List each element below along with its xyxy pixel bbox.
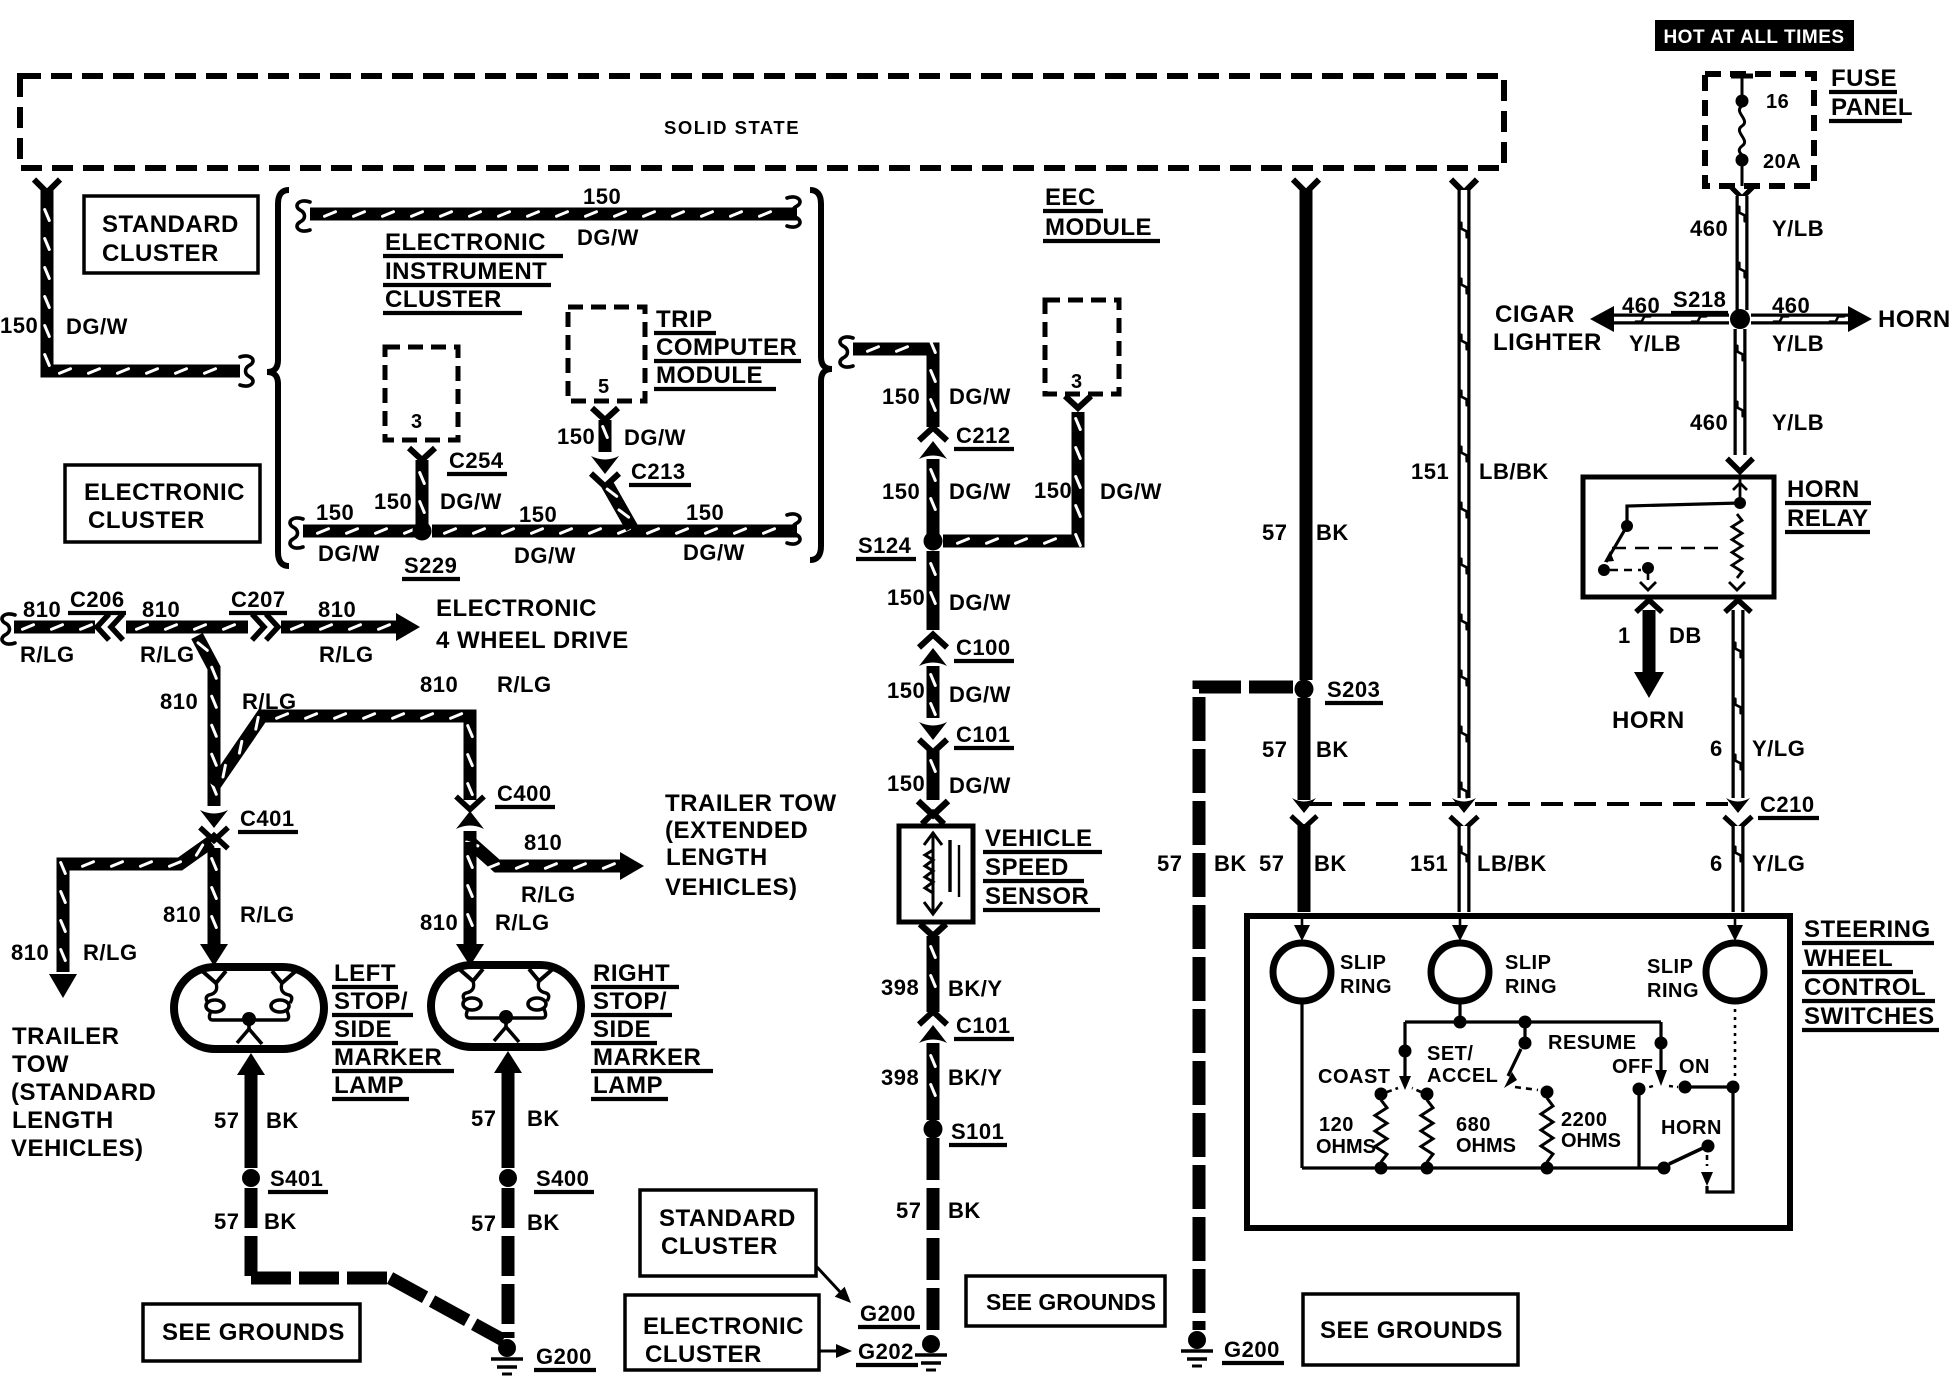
connector chevron at horn relay input — [1727, 459, 1753, 472]
label C254 — [447, 448, 507, 474]
box ELECTRONIC CLUSTER (bottom) — [625, 1295, 819, 1370]
svg-text:398: 398 — [881, 1065, 919, 1090]
ground G200 (right) — [1181, 1331, 1213, 1366]
svg-text:3: 3 — [411, 411, 423, 433]
svg-text:151: 151 — [1411, 459, 1449, 484]
label 150 (S124-EEC) — [1034, 478, 1072, 503]
junction at slip ring 2 bus — [1454, 1016, 1467, 1029]
label 150 (bus left) — [316, 500, 354, 525]
label 150 (top cluster wire) — [583, 184, 621, 209]
svg-text:C400: C400 — [497, 781, 552, 806]
svg-text:RING: RING — [1340, 976, 1392, 998]
label S124 — [856, 533, 916, 559]
wire 150 DG/W top cluster feed — [297, 197, 800, 231]
label Y/LG (lower) — [1752, 851, 1805, 876]
connector chevron at solid state output pin (left) — [34, 180, 60, 193]
connector chevron below fuse panel — [1730, 186, 1754, 198]
box ELECTRONIC CLUSTER (left) — [65, 465, 260, 542]
svg-text:S203: S203 — [1327, 677, 1380, 702]
svg-text:HORN: HORN — [1612, 707, 1685, 734]
wire 150 DG/W cluster bus right segment — [432, 514, 800, 544]
svg-text:CLUSTER: CLUSTER — [645, 1341, 762, 1368]
svg-text:398: 398 — [881, 975, 919, 1000]
svg-text:150: 150 — [519, 502, 557, 527]
splice S203 — [1295, 680, 1314, 699]
svg-text:ELECTRONIC: ELECTRONIC — [436, 595, 597, 622]
connector C101 (upper) — [919, 722, 947, 753]
label C206 — [68, 587, 126, 613]
svg-text:C206: C206 — [70, 587, 125, 612]
label DB (DB wire) — [1669, 623, 1702, 648]
label TRIP COMPUTER MODULE — [654, 306, 801, 389]
wire 150 DG/W trip computer to C213 — [603, 420, 608, 452]
svg-text:RELAY: RELAY — [1787, 505, 1869, 532]
svg-text:R/LG: R/LG — [497, 672, 552, 697]
wire 810 R/LG C206 to C207 — [126, 625, 248, 630]
wire 57 BK left lamp to S401 — [237, 1053, 265, 1168]
label 150 (C101-VSS) — [887, 771, 925, 796]
label HOT AT ALL TIMES (black banner) — [1655, 20, 1854, 51]
svg-text:S218: S218 — [1673, 287, 1726, 312]
label ON — [1679, 1056, 1710, 1078]
slip ring 3 — [1706, 943, 1764, 1001]
svg-text:20A: 20A — [1763, 151, 1801, 173]
svg-text:S400: S400 — [536, 1166, 589, 1191]
svg-text:(STANDARD: (STANDARD — [11, 1079, 156, 1106]
label 1 (DB wire) — [1618, 623, 1631, 648]
label G200 (right) — [1222, 1337, 1284, 1363]
svg-text:DB: DB — [1669, 623, 1702, 648]
wire 398 BK/Y C101 to S101 — [931, 1043, 936, 1120]
svg-text:LENGTH: LENGTH — [12, 1107, 114, 1134]
label HORN (load) — [1612, 707, 1685, 734]
svg-text:Y/LB: Y/LB — [1772, 216, 1824, 241]
wire 150 DG/W C101 to speed sensor — [931, 750, 936, 800]
label 460 (horn) — [1772, 293, 1810, 318]
horn switch — [1658, 1092, 1734, 1192]
arrow into slip ring 2 — [1452, 916, 1468, 941]
svg-text:DG/W: DG/W — [683, 540, 745, 565]
svg-text:LAMP: LAMP — [334, 1072, 404, 1099]
svg-text:OHMS: OHMS — [1316, 1136, 1376, 1158]
label S401 — [268, 1166, 328, 1192]
connector C400 — [456, 797, 484, 830]
wire slip ring 2 to switch bus — [1458, 1001, 1461, 1022]
connector C101 (lower) — [919, 1012, 947, 1044]
coast contact and 120 ohms resistor — [1375, 1088, 1399, 1169]
svg-text:6: 6 — [1710, 851, 1723, 876]
fuse 20A element — [1731, 74, 1753, 186]
svg-text:LB/BK: LB/BK — [1477, 851, 1547, 876]
svg-text:DG/W: DG/W — [949, 773, 1011, 798]
label TRAILER TOW (EXTENDED LENGTH VEHICLES) — [665, 790, 837, 901]
label 150 (C100-C101) — [887, 678, 925, 703]
svg-text:CLUSTER: CLUSTER — [661, 1233, 778, 1260]
right brace of instrument cluster group — [810, 190, 832, 560]
svg-text:SLIP: SLIP — [1647, 956, 1693, 978]
svg-text:VEHICLES): VEHICLES) — [11, 1135, 144, 1162]
wire 398 BK/Y sensor to C101 — [931, 936, 936, 1012]
svg-text:LAMP: LAMP — [593, 1072, 663, 1099]
svg-text:DG/W: DG/W — [949, 682, 1011, 707]
label EEC MODULE — [1043, 184, 1160, 241]
wire 1 DB horn relay to horn — [1634, 610, 1664, 698]
label DG/W (bus mid) — [514, 543, 576, 568]
set/accel switch — [1399, 1022, 1412, 1090]
svg-text:HORN: HORN — [1878, 306, 1950, 333]
svg-text:SEE GROUNDS: SEE GROUNDS — [162, 1319, 345, 1346]
connector chevron below solid state (57 BK) — [1293, 180, 1319, 193]
wire 150 DG/W C100 to C101 — [931, 666, 936, 718]
label DG/W (left wire) — [66, 314, 128, 339]
label ELECTRONIC 4 WHEEL DRIVE — [436, 595, 629, 654]
svg-text:BK: BK — [948, 1198, 981, 1223]
wire 57 BK S400 to ground (dashed) — [502, 1188, 515, 1338]
label VEHICLE SPEED SENSOR — [983, 825, 1102, 910]
svg-text:BK/Y: BK/Y — [948, 1065, 1003, 1090]
svg-text:G200: G200 — [860, 1301, 916, 1326]
label 398 (lower) — [881, 1065, 919, 1090]
svg-text:G202: G202 — [858, 1339, 914, 1364]
svg-text:2200: 2200 — [1561, 1109, 1608, 1131]
label S400 — [534, 1166, 594, 1192]
svg-text:STANDARD: STANDARD — [102, 211, 239, 238]
label TRAILER TOW (STANDARD LENGTH VEHICLES) — [11, 1023, 156, 1162]
label BK (S203-C210) — [1316, 737, 1349, 762]
svg-text:ELECTRONIC: ELECTRONIC — [84, 479, 245, 506]
svg-text:810: 810 — [163, 902, 201, 927]
label 150 (C212-S124) — [882, 479, 920, 504]
label C213 — [629, 459, 691, 485]
svg-text:LENGTH: LENGTH — [666, 844, 768, 871]
svg-text:LB/BK: LB/BK — [1479, 459, 1549, 484]
svg-text:MODULE: MODULE — [1045, 214, 1152, 241]
svg-text:BK: BK — [1316, 520, 1349, 545]
label BK (right lamp) — [527, 1106, 560, 1131]
label 150 (bus mid) — [519, 502, 557, 527]
box SEE GROUNDS (right) — [1303, 1294, 1518, 1365]
wire 150 DG/W cluster bus left segment — [290, 518, 422, 548]
label BK (S400 ground) — [527, 1210, 560, 1235]
svg-text:WHEEL: WHEEL — [1804, 945, 1893, 972]
label 151 (upper) — [1411, 459, 1449, 484]
svg-text:FUSE: FUSE — [1831, 65, 1897, 92]
svg-text:C212: C212 — [956, 423, 1011, 448]
svg-text:SIDE: SIDE — [593, 1016, 651, 1043]
svg-text:810: 810 — [420, 910, 458, 935]
svg-text:810: 810 — [420, 672, 458, 697]
svg-text:S401: S401 — [270, 1166, 323, 1191]
svg-text:150: 150 — [882, 479, 920, 504]
label DG/W (C212-S124) — [949, 479, 1011, 504]
svg-text:Y/LB: Y/LB — [1629, 331, 1681, 356]
svg-text:VEHICLE: VEHICLE — [985, 825, 1093, 852]
wire 810 R/LG C401 down to left lamp — [200, 848, 228, 966]
box SEE GROUNDS (center) — [966, 1276, 1165, 1326]
svg-text:BK: BK — [1214, 851, 1247, 876]
svg-text:S101: S101 — [951, 1119, 1004, 1144]
label 57 (center ground wire) — [896, 1198, 921, 1223]
svg-text:SLIP: SLIP — [1340, 952, 1386, 974]
svg-text:4 WHEEL DRIVE: 4 WHEEL DRIVE — [436, 627, 629, 654]
svg-text:DG/W: DG/W — [1100, 479, 1162, 504]
label S203 — [1325, 677, 1383, 703]
svg-text:C401: C401 — [240, 806, 295, 831]
svg-text:PANEL: PANEL — [1831, 94, 1913, 121]
svg-text:C101: C101 — [956, 722, 1011, 747]
svg-text:SWITCHES: SWITCHES — [1804, 1003, 1935, 1030]
label Y/LG (upper) — [1752, 736, 1805, 761]
svg-text:OHMS: OHMS — [1561, 1130, 1621, 1152]
svg-text:(EXTENDED: (EXTENDED — [665, 817, 808, 844]
wire 460 Y/LB S218 to cigar lighter — [1590, 306, 1729, 332]
label DG/W (C100-C101) — [949, 682, 1011, 707]
svg-text:BK: BK — [1314, 851, 1347, 876]
svg-text:16: 16 — [1766, 91, 1789, 113]
label 460 (cigar) — [1622, 293, 1660, 318]
label BK (C210-box) — [1314, 851, 1347, 876]
slip ring 2 — [1431, 943, 1489, 1001]
svg-text:57: 57 — [214, 1209, 239, 1234]
horn relay box — [1583, 477, 1774, 597]
label BK (center ground wire) — [948, 1198, 981, 1223]
label Y/LB (horn) — [1772, 331, 1824, 356]
label 6 (upper) — [1710, 736, 1723, 761]
left brace of instrument cluster group — [267, 190, 289, 566]
label 810 (branch down) — [160, 689, 198, 714]
right stop/side marker lamp — [431, 965, 581, 1047]
wire 57 BK right lamp to S400 — [494, 1051, 522, 1168]
svg-text:150: 150 — [887, 678, 925, 703]
label 57 (S203 branch at C210) — [1157, 851, 1182, 876]
svg-text:LEFT: LEFT — [334, 960, 396, 987]
connector C401 — [200, 810, 228, 849]
svg-text:COMPUTER: COMPUTER — [656, 334, 797, 361]
label R/LG (C206-C207) — [140, 642, 195, 667]
svg-text:RING: RING — [1647, 980, 1699, 1002]
label 398 (upper) — [881, 975, 919, 1000]
svg-text:DG/W: DG/W — [440, 489, 502, 514]
svg-text:STOP/: STOP/ — [334, 988, 408, 1015]
svg-text:810: 810 — [23, 597, 61, 622]
label 150 (left wire) — [0, 313, 38, 338]
svg-text:R/LG: R/LG — [140, 642, 195, 667]
connector C100 — [919, 635, 947, 667]
connector C213 — [591, 456, 619, 487]
junction resume branch — [1519, 1016, 1532, 1029]
svg-text:57: 57 — [1262, 520, 1287, 545]
wire 810 R/LG C401 branch to C400 — [214, 714, 472, 800]
svg-text:INSTRUMENT: INSTRUMENT — [385, 258, 547, 285]
svg-text:LIGHTER: LIGHTER — [1493, 329, 1602, 356]
svg-text:460: 460 — [1772, 293, 1810, 318]
label 6 (lower) — [1710, 851, 1723, 876]
svg-text:57: 57 — [896, 1198, 921, 1223]
resistor bus bottom — [1302, 1162, 1664, 1175]
connector C210 at 6 Y/LG wire — [1724, 798, 1752, 830]
wire 57 BK S101 to ground G200/G202 (dashed) — [927, 1138, 940, 1338]
ground G200/G202 (center) — [915, 1335, 947, 1370]
svg-text:R/LG: R/LG — [20, 642, 75, 667]
svg-text:680: 680 — [1456, 1114, 1491, 1136]
svg-text:BK: BK — [264, 1209, 297, 1234]
label 150 (S124-C100) — [887, 585, 925, 610]
steering wheel control switches box — [1247, 916, 1790, 1228]
label S101 — [949, 1119, 1007, 1145]
label 57 (left lamp) — [214, 1108, 239, 1133]
label 150 (trip wire) — [557, 424, 595, 449]
label RESUME — [1548, 1032, 1637, 1054]
label OFF — [1612, 1056, 1654, 1078]
svg-text:DG/W: DG/W — [318, 541, 380, 566]
wire 57 BK S203 stub to ground branch (dashed) — [1199, 687, 1293, 1330]
svg-text:BK: BK — [527, 1210, 560, 1235]
svg-text:BK: BK — [1316, 737, 1349, 762]
label 810 (tow ext) — [524, 830, 562, 855]
connector C210 at 151 wire — [1450, 798, 1478, 830]
svg-text:C210: C210 — [1760, 792, 1815, 817]
label RIGHT STOP/SIDE MARKER LAMP — [591, 960, 713, 1099]
svg-text:DG/W: DG/W — [514, 543, 576, 568]
splice S401 — [242, 1169, 260, 1187]
label Y/LB (fuse-S218) — [1772, 216, 1824, 241]
svg-text:CONTROL: CONTROL — [1804, 974, 1926, 1001]
connector C207 (double chevron) — [252, 614, 278, 640]
svg-text:57: 57 — [1157, 851, 1182, 876]
svg-text:810: 810 — [142, 597, 180, 622]
label STEERING WHEEL CONTROL SWITCHES — [1802, 916, 1939, 1030]
svg-text:S124: S124 — [858, 533, 912, 558]
svg-text:HORN: HORN — [1787, 476, 1860, 503]
svg-text:150: 150 — [887, 771, 925, 796]
svg-text:C254: C254 — [449, 448, 504, 473]
label SLIP RING 2 — [1505, 952, 1557, 998]
svg-text:57: 57 — [1262, 737, 1287, 762]
wire 150 DG/W S124 to C100 — [931, 551, 936, 630]
label R/LG (branch down) — [242, 689, 297, 714]
svg-text:57: 57 — [471, 1211, 496, 1236]
svg-text:Y/LB: Y/LB — [1772, 331, 1824, 356]
label DG/W (top cluster wire) — [577, 225, 639, 250]
ground G200 (left) — [491, 1339, 523, 1374]
label C101 (upper) — [954, 722, 1014, 748]
arrow electronic cluster to G202 — [819, 1344, 852, 1358]
svg-text:ACCEL: ACCEL — [1427, 1065, 1498, 1087]
label 810 (C206-C207) — [142, 597, 180, 622]
wire 810 R/LG branch down to C401 — [197, 636, 216, 806]
wire 57 BK S203 to C210 — [1298, 698, 1311, 800]
connector X at speed sensor input — [918, 801, 948, 824]
label HORN RELAY — [1785, 476, 1871, 532]
svg-text:150: 150 — [686, 500, 724, 525]
label R/LG (above C400) — [497, 672, 552, 697]
connector chevron below horn relay (Y/LG) — [1725, 600, 1751, 612]
label 460 (S218-relay) — [1690, 410, 1728, 435]
label 810 (left of C206) — [23, 597, 61, 622]
wire slip ring 1 to resistor bus — [1300, 1001, 1303, 1168]
svg-text:DG/W: DG/W — [577, 225, 639, 250]
label DG/W (to C212) — [949, 384, 1011, 409]
label ELECTRONIC INSTRUMENT CLUSTER — [383, 229, 563, 313]
svg-text:R/LG: R/LG — [521, 882, 576, 907]
label BK (upper) — [1316, 520, 1349, 545]
label G200 (center) — [858, 1301, 920, 1327]
svg-text:57: 57 — [471, 1106, 496, 1131]
wire 6 Y/LG C210 to steering box — [1735, 826, 1740, 912]
connector line C210 (dashed) — [1310, 802, 1732, 806]
svg-text:STEERING: STEERING — [1804, 916, 1931, 943]
label 810 (left lamp feed) — [163, 902, 201, 927]
svg-text:SEE GROUNDS: SEE GROUNDS — [986, 1289, 1156, 1315]
svg-text:R/LG: R/LG — [495, 910, 550, 935]
label 460 (fuse-S218) — [1690, 216, 1728, 241]
svg-text:CIGAR: CIGAR — [1495, 301, 1575, 328]
label R/LG (left of C206) — [20, 642, 75, 667]
label 150 (to C212) — [882, 384, 920, 409]
connector chevron below solid state (151) — [1451, 180, 1477, 193]
wire 460 Y/LB S218 down to horn relay — [1737, 329, 1742, 455]
label 57 (C210-box) — [1259, 851, 1284, 876]
svg-text:R/LG: R/LG — [319, 642, 374, 667]
label LB/BK (lower) — [1477, 851, 1547, 876]
label 57 (right lamp) — [471, 1106, 496, 1131]
label BK (S401 ground) — [264, 1209, 297, 1234]
label DG/W (C101-VSS) — [949, 773, 1011, 798]
box SEE GROUNDS (left) — [143, 1304, 360, 1361]
svg-text:TRAILER: TRAILER — [12, 1023, 120, 1050]
svg-text:BK/Y: BK/Y — [948, 976, 1003, 1001]
splice S101 — [924, 1120, 943, 1139]
label C101 (lower) — [954, 1013, 1014, 1039]
svg-text:57: 57 — [1259, 851, 1284, 876]
svg-text:RING: RING — [1505, 976, 1557, 998]
label G200 (left) — [534, 1344, 596, 1370]
label R/LG (tow ext) — [521, 882, 576, 907]
svg-text:460: 460 — [1690, 410, 1728, 435]
label C100 — [954, 635, 1014, 661]
wire 460 Y/LB S218 to horn — [1751, 306, 1872, 332]
svg-text:3: 3 — [1071, 371, 1083, 393]
svg-text:G200: G200 — [536, 1344, 592, 1369]
slip ring 1 — [1273, 943, 1331, 1001]
svg-text:TRIP: TRIP — [656, 306, 713, 333]
svg-text:ON: ON — [1679, 1056, 1710, 1078]
fuse panel dashed box — [1705, 74, 1814, 186]
wire 810 R/LG C401 branch to trailer tow standard — [49, 842, 211, 998]
box STANDARD CLUSTER (top) — [84, 196, 258, 273]
accel contact and 680 ohms resistor — [1412, 1088, 1434, 1169]
svg-text:SOLID STATE: SOLID STATE — [664, 117, 800, 138]
wire 57 BK solid state to S203 — [1300, 190, 1313, 680]
vehicle speed sensor VSS box — [899, 826, 973, 922]
svg-text:DG/W: DG/W — [949, 384, 1011, 409]
off/on switch — [1646, 1022, 1678, 1088]
svg-text:SIDE: SIDE — [334, 1016, 392, 1043]
box STANDARD CLUSTER (bottom) — [640, 1190, 816, 1276]
svg-text:810: 810 — [11, 940, 49, 965]
connector pin box 3 (EEC module) — [1045, 300, 1119, 394]
svg-text:150: 150 — [882, 384, 920, 409]
label SLIP RING 1 — [1340, 952, 1392, 998]
resume switch — [1504, 1028, 1538, 1090]
svg-text:MARKER: MARKER — [593, 1044, 701, 1071]
connector C206 (double chevron) — [97, 614, 123, 640]
svg-text:BK: BK — [527, 1106, 560, 1131]
off contact to bus — [1633, 1083, 1646, 1169]
svg-text:CLUSTER: CLUSTER — [102, 240, 219, 267]
svg-text:460: 460 — [1690, 216, 1728, 241]
splice S218 — [1730, 309, 1750, 329]
